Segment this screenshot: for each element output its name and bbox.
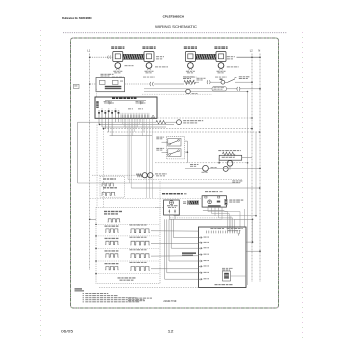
svg-text:WIRING SCHEMATIC: WIRING SCHEMATIC	[155, 24, 197, 29]
svg-text:06/05: 06/05	[61, 329, 73, 333]
svg-text:CPLEF398SCH: CPLEF398SCH	[163, 14, 184, 18]
svg-text:N: N	[258, 49, 260, 53]
svg-text:12: 12	[168, 329, 174, 333]
svg-text:216417749: 216417749	[163, 299, 176, 303]
svg-text:Publication No: 5995448080: Publication No: 5995448080	[62, 17, 92, 20]
